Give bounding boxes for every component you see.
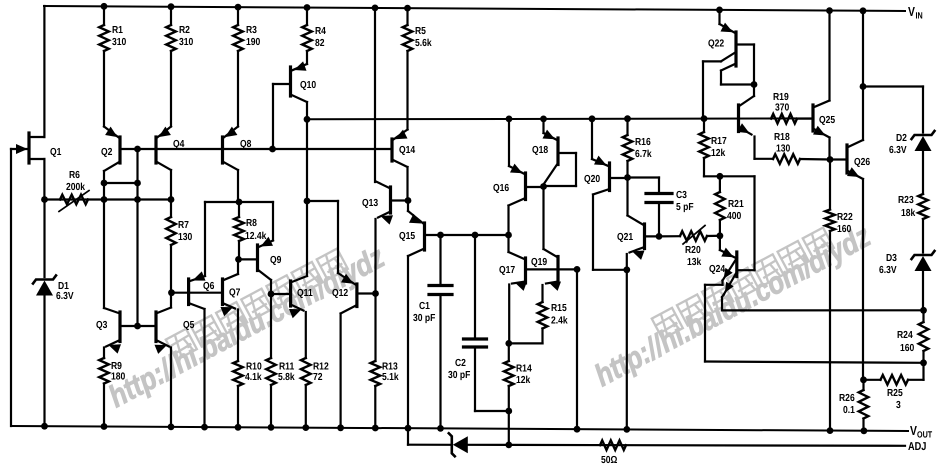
svg-text:30 pF: 30 pF — [448, 370, 470, 381]
label Q5 — [183, 320, 195, 331]
svg-text:R16: R16 — [635, 137, 651, 148]
resistor R25 — [881, 375, 909, 385]
svg-text:3: 3 — [896, 400, 901, 411]
svg-text:ADJ: ADJ — [908, 441, 926, 453]
svg-text:R20: R20 — [685, 245, 701, 256]
transistor Q7 — [221, 259, 239, 361]
svg-text:Q9: Q9 — [270, 255, 282, 266]
svg-text:180: 180 — [111, 372, 126, 383]
resistor R14 — [504, 343, 514, 414]
transistor Q11 — [289, 201, 307, 358]
label R10 — [245, 362, 262, 384]
svg-text:Q20: Q20 — [584, 174, 600, 185]
label C3 — [676, 190, 694, 213]
transistor Q14 — [392, 130, 408, 201]
wire R6 line — [41, 196, 174, 203]
label Q10 — [300, 80, 316, 91]
wire Q24 lower collector to R24 top — [722, 309, 924, 311]
svg-text:IN: IN — [916, 11, 923, 21]
label Q26 — [854, 157, 870, 168]
wire sense drop to VOUT — [574, 269, 581, 432]
label Q7 — [229, 288, 241, 299]
transistor Q4 — [156, 127, 171, 200]
svg-text:13k: 13k — [687, 257, 702, 268]
wire left gate rail — [10, 149, 12, 426]
svg-text:50Ω: 50Ω — [601, 455, 617, 466]
resistor 50ohm — [600, 440, 626, 450]
label Q20 — [584, 174, 600, 185]
label R6 — [66, 170, 85, 193]
label V_IN — [908, 4, 923, 21]
svg-text:370: 370 — [775, 103, 790, 114]
wire Q1 source — [43, 159, 45, 200]
svg-text:400: 400 — [727, 211, 742, 222]
label R11 — [278, 362, 295, 384]
svg-text:6.3V: 6.3V — [889, 145, 907, 156]
svg-text:R6: R6 — [69, 170, 80, 181]
zener D1 — [33, 276, 56, 296]
label Q15 — [399, 231, 415, 242]
capacitor C2 — [464, 235, 509, 411]
resistor R2 — [166, 3, 176, 126]
label Q9 — [270, 255, 282, 266]
resistor R16 — [623, 115, 633, 181]
svg-text:Q4: Q4 — [173, 139, 185, 150]
svg-text:Q10: Q10 — [300, 80, 316, 91]
svg-text:D3: D3 — [886, 253, 897, 264]
svg-text:82: 82 — [315, 38, 325, 49]
label R14 — [516, 364, 532, 387]
svg-text:R22: R22 — [837, 212, 853, 223]
svg-text:160: 160 — [837, 224, 852, 235]
transistor Q13 — [376, 182, 409, 362]
label R13 — [382, 362, 399, 384]
label R24 — [897, 330, 915, 354]
svg-text:C3: C3 — [676, 190, 687, 201]
transistor Q6 — [189, 202, 208, 431]
label R4 — [315, 26, 326, 49]
svg-text:R19: R19 — [773, 92, 789, 103]
wire Q24 base riser — [720, 176, 755, 270]
node Q12 base on rail — [372, 290, 379, 297]
wire D2-R23 — [922, 151, 924, 194]
node Q13 base — [405, 197, 412, 204]
svg-text:5 pF: 5 pF — [676, 202, 694, 213]
svg-text:Q2: Q2 — [101, 147, 113, 158]
wire D2 branch — [860, 83, 923, 132]
resistor R7 — [166, 200, 176, 308]
svg-text:V: V — [910, 423, 917, 438]
wire V_OUT bottom rail — [11, 426, 908, 431]
transistor Q8 — [223, 127, 239, 203]
wire mirror to Q9 — [272, 202, 274, 241]
svg-text:Q25: Q25 — [819, 115, 835, 126]
label Q17 — [499, 265, 515, 276]
svg-text:2.4k: 2.4k — [551, 316, 568, 327]
label Q25 — [819, 115, 835, 126]
svg-text:310: 310 — [179, 37, 194, 48]
resistor R19 — [771, 114, 813, 124]
resistor R26 — [859, 380, 869, 434]
transistor Q25 — [813, 7, 833, 163]
wire left rail (Q1 drain riser) — [43, 6, 45, 137]
resistor R5 — [403, 5, 413, 130]
label ADJ — [908, 441, 926, 453]
svg-text:R12: R12 — [313, 362, 329, 373]
svg-text:Q6: Q6 — [203, 281, 215, 292]
node Q11 base tap — [268, 291, 291, 298]
node R20/R21 — [707, 232, 723, 239]
label R16 — [635, 137, 652, 160]
capacitor C3 — [628, 178, 673, 240]
resistor R20 — [680, 226, 707, 245]
svg-text:Q15: Q15 — [399, 231, 415, 242]
resistor R17 — [699, 115, 723, 180]
node R15/R14 junction — [505, 340, 512, 347]
svg-text:R14: R14 — [516, 364, 532, 375]
transistor Q24 — [705, 236, 755, 362]
label R22 — [837, 212, 853, 235]
label R8 — [245, 218, 267, 242]
wire R14 to ADJ — [505, 411, 512, 448]
label Q16 — [493, 183, 509, 194]
svg-text:Q16: Q16 — [493, 183, 509, 194]
label Q19 — [531, 257, 547, 268]
svg-text:R7: R7 — [178, 220, 189, 231]
transistor Q18 — [540, 116, 576, 187]
transistor Q2 — [104, 127, 120, 184]
svg-text:0.1: 0.1 — [843, 405, 855, 416]
svg-text:12k: 12k — [711, 148, 726, 159]
node mid-bus to Q12 — [304, 119, 338, 273]
svg-text:Q24: Q24 — [709, 264, 725, 275]
wire D1 to rail — [41, 296, 48, 430]
label 50ohm — [601, 455, 617, 466]
resistor R12 — [301, 358, 311, 431]
label Q8 — [240, 139, 252, 150]
transistor Q21 — [623, 178, 659, 274]
svg-text:5.1k: 5.1k — [382, 372, 399, 383]
label Q21 — [617, 232, 633, 243]
svg-text:R17: R17 — [711, 136, 727, 147]
transistor Q9 — [240, 237, 273, 358]
svg-text:18k: 18k — [901, 208, 916, 219]
label R23 — [898, 195, 916, 219]
label C2 — [448, 358, 470, 381]
label Q2 — [101, 147, 113, 158]
transistor Q5 — [155, 308, 175, 431]
svg-text:Q13: Q13 — [362, 198, 378, 209]
svg-text:Q12: Q12 — [332, 288, 348, 299]
resistor R6 — [59, 191, 89, 212]
svg-text:R4: R4 — [315, 26, 326, 37]
svg-text:R24: R24 — [897, 330, 913, 341]
node Q18 tie — [540, 183, 547, 190]
label R17 — [711, 136, 727, 159]
watermark left — [99, 231, 391, 414]
svg-text:Q5: Q5 — [183, 320, 195, 331]
node Q3/Q5 base — [134, 323, 141, 330]
wire internal bus — [307, 117, 813, 120]
transistor Q1 — [11, 133, 44, 163]
transistor Q23 — [737, 85, 773, 159]
svg-text:Q11: Q11 — [297, 288, 313, 299]
label R20 — [685, 245, 702, 268]
label R26 — [839, 393, 855, 416]
wire sense line — [425, 232, 512, 239]
wire Q17/Q19 base line — [526, 266, 581, 273]
zener D2 — [912, 131, 935, 151]
label Q14 — [399, 145, 415, 156]
wire V_IN top bus — [44, 6, 905, 11]
svg-text:R2: R2 — [179, 25, 190, 36]
svg-text:R23: R23 — [898, 195, 914, 206]
svg-text:R5: R5 — [415, 26, 426, 37]
label Q22 — [708, 39, 724, 50]
wire top-bus drop — [372, 5, 379, 183]
zener D ADJ — [449, 433, 468, 456]
wire Q24 upper collector to R24 bottom — [705, 359, 927, 366]
svg-text:130: 130 — [776, 144, 791, 155]
svg-text:Q1: Q1 — [50, 147, 62, 158]
wire Q21 emitter to VOUT — [623, 270, 630, 433]
resistor R24 — [919, 310, 929, 363]
label Q3 — [96, 320, 108, 331]
label D2 — [889, 133, 907, 156]
wire R23-D3 — [922, 219, 924, 253]
svg-text:6.3V: 6.3V — [879, 265, 897, 276]
resistor R11 — [266, 358, 276, 431]
svg-text:R25: R25 — [887, 388, 903, 399]
label R3 — [246, 25, 261, 48]
label R12 — [313, 362, 329, 384]
resistor R21 — [715, 176, 725, 236]
label V_OUT — [910, 423, 933, 440]
node Q2 base-collector tie — [101, 146, 141, 200]
resistor R13 — [371, 361, 381, 431]
resistor R10 — [233, 361, 243, 431]
wire Q15 collector to ADJ — [407, 428, 409, 445]
svg-text:200k: 200k — [66, 182, 85, 193]
wire Q1 source to D1 — [43, 200, 45, 278]
watermark right — [585, 210, 877, 393]
label R7 — [178, 220, 193, 243]
resistor R23 — [918, 194, 928, 219]
transistor Q10 — [273, 61, 307, 149]
wire D3-R24 — [920, 271, 927, 314]
svg-text:Q22: Q22 — [708, 39, 724, 50]
svg-text:Q7: Q7 — [229, 288, 241, 299]
transistor Q12 — [337, 273, 375, 431]
label Q18 — [532, 145, 548, 156]
label C1 — [413, 301, 435, 324]
wire base column — [136, 183, 138, 326]
label R15 — [551, 303, 568, 327]
svg-text:6.7k: 6.7k — [635, 149, 652, 160]
label Q1 — [50, 147, 62, 158]
svg-text:Q14: Q14 — [399, 145, 415, 156]
transistor Q17 — [509, 235, 528, 344]
label R2 — [179, 25, 194, 48]
svg-text:R26: R26 — [839, 393, 855, 404]
svg-text:310: 310 — [112, 37, 127, 48]
resistor R4 — [302, 4, 312, 64]
svg-text:5.6k: 5.6k — [415, 38, 432, 49]
label Q13 — [362, 198, 378, 209]
resistor R9 — [99, 358, 109, 430]
resistor R8 — [234, 202, 244, 263]
svg-text:Q18: Q18 — [532, 145, 548, 156]
label R25 — [887, 388, 903, 411]
label Q24 — [709, 264, 725, 275]
label R18 — [774, 132, 791, 155]
svg-text:C1: C1 — [419, 301, 430, 312]
svg-text:72: 72 — [313, 372, 323, 383]
svg-text:130: 130 — [178, 232, 193, 243]
svg-text:Q26: Q26 — [854, 157, 870, 168]
svg-text:R13: R13 — [382, 362, 398, 373]
svg-text:R11: R11 — [279, 362, 295, 373]
label D1 — [56, 281, 74, 302]
svg-text:R8: R8 — [246, 218, 257, 229]
svg-text:Q8: Q8 — [240, 139, 252, 150]
wire base bus Q2-Q4-Q8-Q14 — [120, 148, 392, 150]
wire Q2 collector column — [103, 200, 105, 309]
label R5 — [415, 26, 432, 49]
svg-text:R18: R18 — [774, 132, 790, 143]
svg-text:R15: R15 — [551, 303, 567, 314]
svg-text:Q17: Q17 — [499, 265, 515, 276]
transistor Q20 — [589, 115, 628, 269]
resistor R18 — [773, 154, 830, 164]
resistor R3 — [233, 4, 243, 127]
node Q10 collector on bus — [304, 116, 311, 123]
svg-text:R3: R3 — [246, 25, 257, 36]
wire Q6-Q7 base line — [168, 289, 222, 296]
svg-text:30 pF: 30 pF — [413, 313, 435, 324]
label Q12 — [332, 288, 348, 299]
wire C3-R20 link — [659, 235, 680, 237]
svg-text:6.3V: 6.3V — [56, 291, 74, 302]
label R21 — [727, 199, 744, 222]
svg-text:R10: R10 — [246, 362, 262, 373]
svg-text:190: 190 — [246, 37, 261, 48]
wire R25 link — [860, 363, 923, 383]
transistor Q15 — [405, 201, 425, 432]
label Q11 — [297, 288, 313, 299]
svg-text:Q19: Q19 — [531, 257, 547, 268]
label R9 — [111, 361, 126, 383]
svg-text:D2: D2 — [896, 133, 907, 144]
resistor R22 — [825, 160, 835, 435]
label R19 — [773, 92, 790, 114]
svg-text:4.1k: 4.1k — [245, 372, 262, 383]
svg-text:Q3: Q3 — [96, 320, 108, 331]
transistor Q19 — [543, 187, 562, 303]
svg-text:R21: R21 — [728, 199, 744, 210]
resistor R15 — [509, 302, 548, 343]
svg-text:C2: C2 — [455, 358, 466, 369]
wire ADJ line — [408, 445, 905, 446]
resistor R1 — [99, 3, 109, 127]
capacitor C1 — [429, 235, 452, 431]
label Q4 — [173, 139, 185, 150]
svg-text:R1: R1 — [112, 25, 123, 36]
node Q10 base on bus — [269, 146, 276, 153]
transistor Q16 — [506, 116, 543, 236]
label R1 — [112, 25, 127, 48]
transistor Q3 — [104, 308, 156, 358]
svg-text:Q21: Q21 — [617, 232, 633, 243]
svg-text:12.4k: 12.4k — [245, 231, 267, 242]
svg-text:OUT: OUT — [917, 430, 933, 440]
zener D3 — [912, 251, 935, 271]
wire mirror rail — [205, 199, 273, 206]
svg-text:160: 160 — [900, 343, 915, 354]
svg-text:V: V — [908, 4, 915, 19]
svg-text:R9: R9 — [111, 361, 122, 372]
svg-text:12k: 12k — [516, 375, 531, 386]
label Q6 — [203, 281, 215, 292]
transistor Q26 — [830, 7, 866, 379]
transistor Q22 — [703, 6, 757, 118]
svg-text:5.8k: 5.8k — [278, 372, 295, 383]
label D3 — [879, 253, 897, 276]
